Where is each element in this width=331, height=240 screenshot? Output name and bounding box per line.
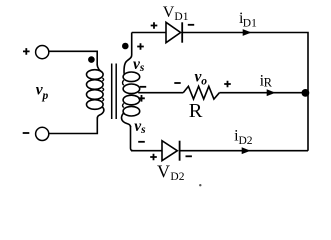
primary winding exit bbox=[97, 107, 104, 119]
diode D2 bbox=[162, 141, 177, 161]
svg-text:o: o bbox=[201, 75, 207, 87]
junction node dot bbox=[302, 89, 310, 97]
svg-text:s: s bbox=[140, 124, 146, 136]
top wire to D1 bbox=[132, 32, 166, 34]
bottom wire to D2 bbox=[131, 150, 162, 152]
arrow iD1 bbox=[243, 29, 252, 36]
svg-text:D2: D2 bbox=[170, 171, 184, 183]
arrow iR bbox=[267, 89, 276, 96]
primary polarity dot bbox=[88, 56, 95, 63]
middle wire resistor to junction bbox=[219, 92, 308, 94]
primary winding entry bbox=[97, 65, 102, 73]
transformer core bbox=[111, 64, 113, 120]
plus right of resistor bbox=[224, 81, 231, 88]
plus top-left terminal bbox=[23, 48, 30, 55]
terminal top-left bbox=[36, 46, 49, 59]
bottom wire D2 to right rail bbox=[180, 150, 308, 152]
minus bottom-left terminal bbox=[23, 132, 30, 134]
svg-text:D1: D1 bbox=[174, 11, 188, 23]
svg-text:R: R bbox=[264, 76, 273, 90]
secondary winding rings bbox=[123, 72, 140, 82]
wire top-left to primary bbox=[49, 51, 97, 65]
minus center tap upper bbox=[140, 86, 146, 88]
center tap wire bbox=[138, 92, 183, 94]
terminal bottom-left bbox=[36, 127, 49, 140]
resistor R bbox=[183, 86, 219, 99]
minus left of resistor bbox=[174, 82, 180, 84]
svg-text:D1: D1 bbox=[243, 18, 257, 30]
minus right of D2 bbox=[186, 155, 192, 157]
plus secondary top bbox=[137, 43, 144, 50]
svg-text:s: s bbox=[139, 62, 145, 74]
svg-text:p: p bbox=[42, 90, 49, 102]
svg-text:V: V bbox=[163, 4, 175, 21]
wire primary bottom to terminal bbox=[49, 118, 97, 134]
speck artifact bottom bbox=[199, 184, 201, 186]
plus left of D2 bbox=[150, 154, 157, 161]
secondary bottom lead bbox=[122, 112, 131, 127]
secondary top lead bbox=[124, 33, 132, 74]
primary winding rings bbox=[87, 70, 104, 80]
secondary polarity dot bbox=[122, 43, 129, 50]
arrow iD2 bbox=[242, 147, 251, 154]
diode D1 bbox=[166, 22, 181, 42]
minus secondary bottom bbox=[138, 141, 145, 143]
plus center tap lower bbox=[138, 95, 145, 102]
plus left of D1 bbox=[151, 22, 158, 29]
svg-text:R: R bbox=[189, 100, 203, 122]
svg-text:D2: D2 bbox=[239, 135, 253, 147]
minus right of D1 bbox=[188, 24, 194, 26]
svg-text:V: V bbox=[157, 162, 170, 182]
top wire D1 to right rail bbox=[182, 33, 308, 151]
